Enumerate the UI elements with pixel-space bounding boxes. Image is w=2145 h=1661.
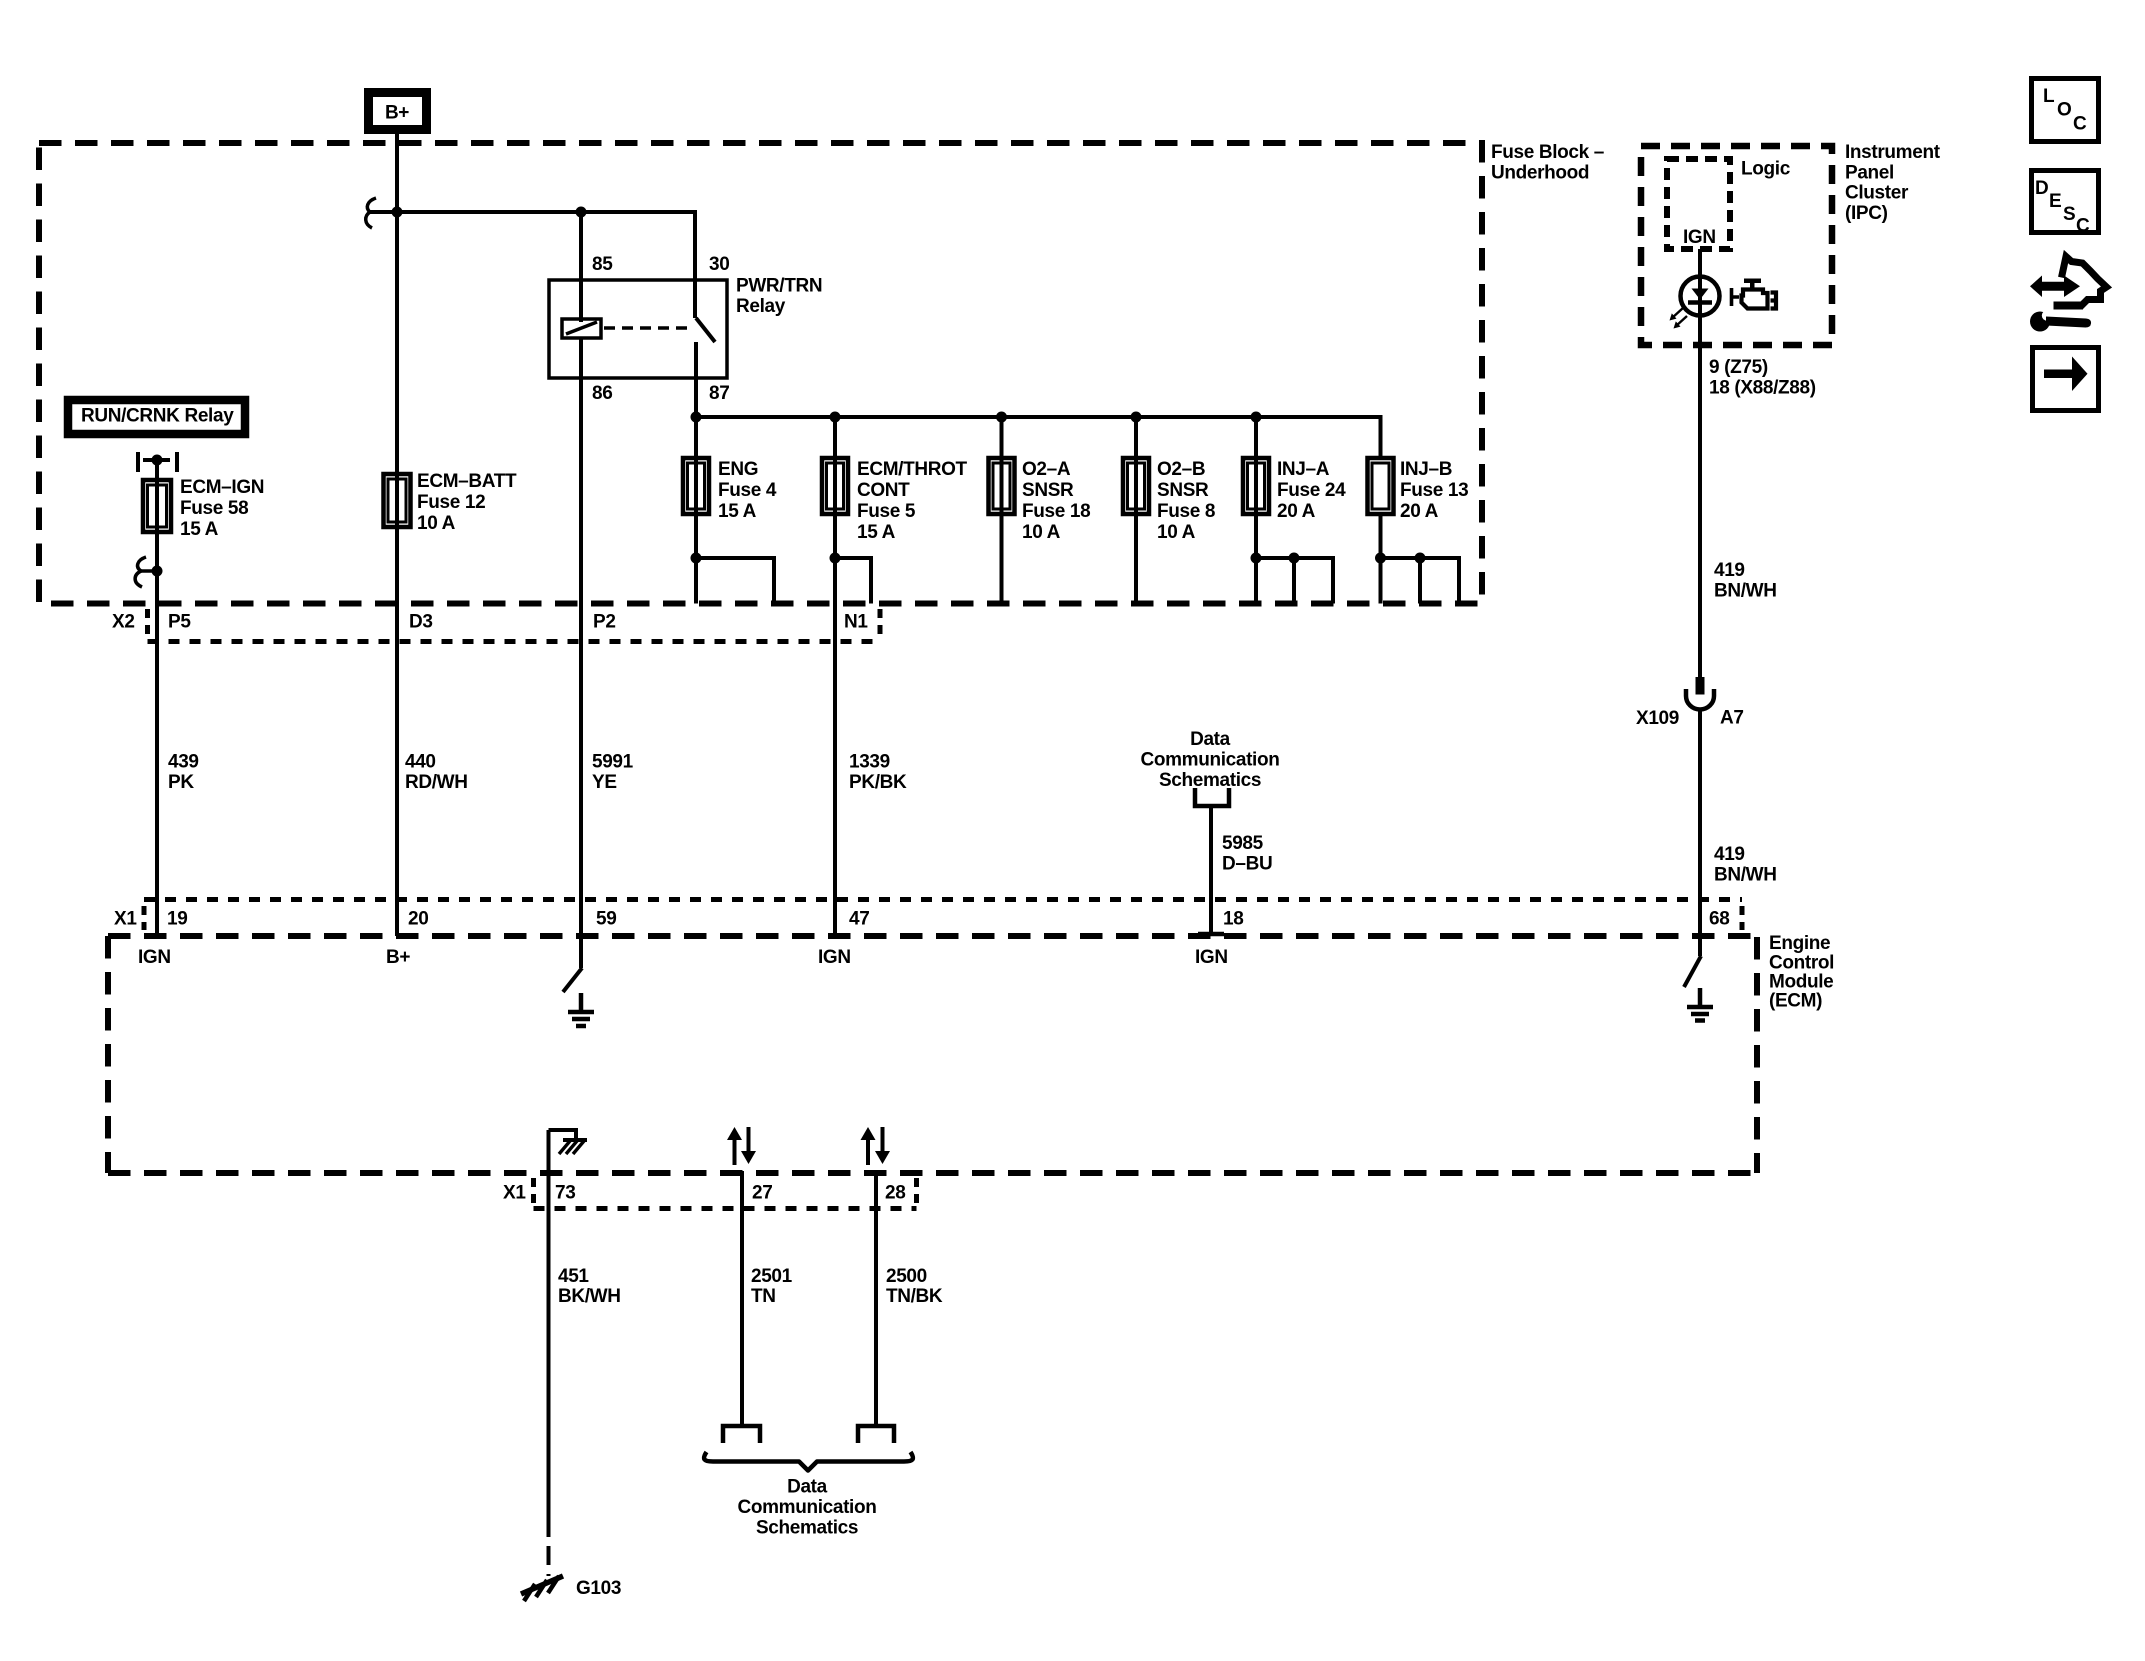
- wire INJ-B stub branches: [1381, 558, 1460, 604]
- label INJ-A Fuse 24 20 A: [1277, 459, 1346, 522]
- svg-text:Data: Data: [1190, 729, 1231, 750]
- jump arrow icon box: [2033, 348, 2099, 411]
- svg-text:BK/WH: BK/WH: [558, 1286, 621, 1307]
- wire relay pin 87 down to fuse bus: [694, 378, 698, 417]
- svg-text:RUN/CRNK Relay: RUN/CRNK Relay: [81, 406, 234, 427]
- wire ECM/THROT fuse stub branch: [835, 558, 871, 604]
- wire feed down to relay pin 30: [693, 210, 697, 318]
- svg-text:10 A: 10 A: [1157, 522, 1196, 543]
- fuse ECM-BATT Fuse 12: [384, 474, 411, 527]
- wire ENG fuse drop: [694, 417, 698, 604]
- fuse ECM-IGN Fuse 58 wire: [155, 465, 159, 571]
- label X2: [112, 612, 135, 633]
- svg-text:B+: B+: [386, 947, 410, 968]
- wire B+ vertical to ECM-BATT fuse and pin 20: [395, 130, 399, 936]
- junction dot bus at INJ-A fuse: [1251, 412, 1262, 423]
- RUN/CRNK Relay label box: [68, 400, 245, 434]
- relay switch blade: [696, 318, 715, 342]
- label wire 419 BN/WH (upper): [1714, 560, 1777, 601]
- svg-text:O2–B: O2–B: [1157, 459, 1205, 480]
- wire 2501 TN pin 27: [740, 1171, 744, 1427]
- pin label 27: [752, 1183, 772, 1204]
- pin label P2: [593, 612, 616, 633]
- chassis ground G103: [521, 1576, 563, 1601]
- svg-text:15 A: 15 A: [180, 519, 219, 540]
- svg-text:X2: X2: [112, 612, 135, 633]
- hotlink icon (double arrow, outline, wrench): [2030, 257, 2107, 332]
- brace for data communication schematics: [704, 1452, 913, 1471]
- svg-text:ECM–BATT: ECM–BATT: [417, 471, 517, 492]
- svg-text:439: 439: [168, 752, 199, 773]
- junction dot below INJ-A fuse: [1251, 553, 1262, 564]
- svg-text:BN/WH: BN/WH: [1714, 580, 1777, 601]
- label wire 5991 YE: [592, 752, 634, 794]
- svg-text:X1: X1: [114, 909, 137, 930]
- chassis ground inside ECM at pin 73: [549, 1130, 588, 1154]
- svg-text:N1: N1: [844, 612, 868, 633]
- svg-text:419: 419: [1714, 844, 1745, 865]
- off-page terminal at 2500: [858, 1426, 894, 1443]
- connector X1 bottom tick left: [531, 1178, 536, 1205]
- wire INJ-A stub branches: [1256, 558, 1333, 604]
- svg-text:C: C: [2076, 216, 2090, 237]
- label A7: [1720, 708, 1744, 729]
- inline connector X109 pin A7: [1686, 677, 1714, 710]
- relay pin label 87: [709, 383, 729, 404]
- svg-text:G103: G103: [576, 1578, 621, 1599]
- LED light arrows: [1670, 308, 1688, 329]
- svg-text:C: C: [2073, 114, 2087, 135]
- svg-text:O: O: [2057, 100, 2071, 121]
- pin label 47: [849, 909, 869, 930]
- svg-text:S: S: [2063, 204, 2075, 225]
- power feed B+ terminal box: [369, 93, 427, 130]
- pin label D3: [409, 612, 433, 633]
- svg-text:IGN: IGN: [1683, 227, 1716, 248]
- indicator LED circle: [1681, 277, 1720, 316]
- svg-text:ENG: ENG: [718, 459, 758, 480]
- wire INJ-B fuse drop: [1379, 514, 1383, 604]
- svg-text:86: 86: [592, 383, 612, 404]
- junction dot bus at O2-A fuse: [996, 412, 1007, 423]
- svg-text:BN/WH: BN/WH: [1714, 864, 1777, 885]
- svg-text:D: D: [2035, 178, 2048, 199]
- label ECM-IGN Fuse 58 15 A: [180, 477, 264, 540]
- svg-text:Fuse 5: Fuse 5: [857, 501, 916, 522]
- wire top horizontal feed: [370, 210, 695, 214]
- relay pin label 30: [709, 254, 729, 275]
- label ENG Fuse 4 15 A: [718, 459, 777, 522]
- svg-text:Fuse 24: Fuse 24: [1277, 480, 1346, 501]
- label wire 1339 PK/BK: [849, 752, 907, 794]
- connector X1 bottom band dotted line: [534, 1206, 917, 1211]
- label ECM-BATT Fuse 12 10 A: [417, 471, 517, 534]
- label Fuse Block - Underhood: [1491, 142, 1604, 184]
- label PWR/TRN Relay: [736, 276, 822, 318]
- svg-text:Fuse Block –: Fuse Block –: [1491, 142, 1604, 163]
- svg-text:20 A: 20 A: [1400, 501, 1439, 522]
- relay actuation dashed link: [604, 326, 688, 330]
- fuse INJ-B Fuse 13: [1368, 458, 1394, 514]
- svg-text:ECM/THROT: ECM/THROT: [857, 459, 968, 480]
- svg-text:Instrument: Instrument: [1845, 142, 1941, 163]
- pin label 20: [408, 909, 428, 930]
- svg-text:9 (Z75): 9 (Z75): [1709, 357, 1768, 378]
- svg-text:SNSR: SNSR: [1022, 480, 1074, 501]
- pin label 28: [885, 1183, 905, 1204]
- junction dot INJ-B stub: [1415, 553, 1426, 564]
- svg-text:YE: YE: [592, 772, 617, 793]
- label ECM/THROT CONT Fuse 5 15 A: [857, 459, 968, 543]
- svg-text:Fuse 8: Fuse 8: [1157, 501, 1215, 522]
- svg-text:P5: P5: [168, 612, 191, 633]
- svg-text:PK/BK: PK/BK: [849, 772, 907, 793]
- label wire 440 RD/WH: [405, 752, 468, 794]
- svg-text:PK: PK: [168, 772, 194, 793]
- fuse ENG Fuse 4: [683, 458, 709, 514]
- Engine Control Module dashed box: [108, 936, 1757, 1173]
- svg-text:TN: TN: [751, 1286, 776, 1307]
- label IGN at pin 47: [818, 947, 851, 968]
- engine icon (check engine): [1732, 279, 1777, 309]
- wire ENG fuse stub branch: [696, 558, 774, 604]
- junction dot below ECM/THROT fuse: [830, 553, 841, 564]
- wire fuse supply bus: [696, 415, 1381, 419]
- fuse ECM/THROT CONT Fuse 5: [822, 458, 848, 514]
- relay pin label 85: [592, 254, 613, 275]
- svg-text:Fuse 13: Fuse 13: [1400, 480, 1468, 501]
- svg-text:D3: D3: [409, 612, 433, 633]
- svg-text:Fuse 4: Fuse 4: [718, 480, 777, 501]
- svg-text:A7: A7: [1720, 708, 1744, 729]
- svg-text:TN/BK: TN/BK: [886, 1286, 943, 1307]
- connector X2 tick left: [145, 609, 150, 639]
- svg-text:Cluster: Cluster: [1845, 183, 1909, 204]
- svg-text:Module: Module: [1769, 971, 1833, 992]
- label IGN at pin 18: [1195, 947, 1228, 968]
- svg-text:Communication: Communication: [1140, 750, 1279, 771]
- serial data arrows at pin 28: [861, 1127, 891, 1165]
- connector X1 tick right at pin 68: [1740, 906, 1745, 930]
- svg-text:18 (X88/Z88): 18 (X88/Z88): [1709, 378, 1816, 399]
- svg-text:85: 85: [592, 254, 613, 275]
- svg-text:IGN: IGN: [1195, 947, 1228, 968]
- label wire 439 PK: [168, 752, 199, 794]
- pin label 19: [167, 909, 187, 930]
- svg-text:87: 87: [709, 383, 729, 404]
- svg-text:Fuse 18: Fuse 18: [1022, 501, 1090, 522]
- wire bus drop to INJ-B fuse: [1379, 415, 1383, 458]
- label wire 419 BN/WH (lower): [1714, 844, 1777, 885]
- RUN/CRNK relay output terminal symbol: [138, 452, 177, 472]
- svg-text:20 A: 20 A: [1277, 501, 1316, 522]
- pin label 73: [555, 1183, 575, 1204]
- fuse O2-A SNSR Fuse 18: [989, 458, 1015, 514]
- svg-text:68: 68: [1709, 909, 1729, 930]
- wire relay pin 86 down (5991 column): [579, 338, 583, 962]
- svg-text:INJ–A: INJ–A: [1277, 459, 1330, 480]
- junction dot at B+ feed: [392, 207, 403, 218]
- ground symbol at pin 68: [1687, 988, 1713, 1021]
- label Data Communication Schematics (lower): [737, 1477, 876, 1539]
- wire 5985 D-BU to pin 18: [1198, 806, 1224, 934]
- svg-text:Logic: Logic: [1741, 159, 1791, 180]
- svg-text:RD/WH: RD/WH: [405, 772, 468, 793]
- wire 451 BK/WH pin 73 to G103: [547, 1130, 551, 1576]
- svg-text:SNSR: SNSR: [1157, 480, 1209, 501]
- wire 419 BN/WH from IPC to X109: [1698, 315, 1702, 677]
- label X109: [1636, 708, 1679, 729]
- svg-text:30: 30: [709, 254, 729, 275]
- svg-text:(ECM): (ECM): [1769, 990, 1822, 1011]
- junction dot INJ-A stub: [1289, 553, 1300, 564]
- relay pin label 86: [592, 383, 612, 404]
- svg-text:B+: B+: [385, 103, 409, 124]
- junction dot below INJ-B fuse: [1375, 553, 1386, 564]
- svg-text:X1: X1: [503, 1183, 526, 1204]
- svg-text:Relay: Relay: [736, 296, 786, 317]
- svg-text:28: 28: [885, 1183, 905, 1204]
- connector X2 band dotted line: [148, 639, 881, 644]
- svg-text:10 A: 10 A: [1022, 522, 1061, 543]
- svg-text:Control: Control: [1769, 952, 1834, 973]
- serial data arrows at pin 27: [727, 1127, 756, 1165]
- label circuit 9 (Z75) 18 (X88/Z88): [1709, 357, 1816, 399]
- junction dot bus at ECM/THROT fuse: [830, 412, 841, 423]
- svg-text:10 A: 10 A: [417, 513, 456, 534]
- svg-text:1339: 1339: [849, 752, 890, 773]
- svg-text:440: 440: [405, 752, 436, 773]
- svg-text:INJ–B: INJ–B: [1400, 459, 1452, 480]
- pin label 59: [596, 909, 616, 930]
- svg-text:CONT: CONT: [857, 480, 910, 501]
- connector X1 bottom tick right: [914, 1178, 919, 1205]
- off-page terminal at 2501: [723, 1426, 760, 1443]
- label IGN at pin 19: [138, 947, 171, 968]
- connector X1 tick left: [142, 906, 147, 930]
- connector X2 tick right: [878, 609, 883, 639]
- wire feed down to relay pin 85: [579, 212, 583, 322]
- svg-text:ECM–IGN: ECM–IGN: [180, 477, 264, 498]
- Instrument Panel Cluster dashed box: [1641, 146, 1832, 345]
- label X1 (bottom band): [503, 1183, 526, 1204]
- pin label N1: [844, 612, 868, 633]
- wire continuation hook at ECM-IGN wire: [135, 557, 162, 587]
- svg-text:Fuse 58: Fuse 58: [180, 498, 248, 519]
- svg-text:Schematics: Schematics: [756, 1518, 858, 1539]
- switch to ground at pin 68 inside ECM: [1684, 936, 1701, 987]
- label wire 2501 TN: [751, 1266, 793, 1307]
- pin label 68: [1709, 909, 1729, 930]
- label Logic: [1741, 159, 1791, 180]
- svg-text:20: 20: [408, 909, 428, 930]
- svg-text:15 A: 15 A: [718, 501, 757, 522]
- svg-text:Data: Data: [787, 1477, 828, 1498]
- connector X1 band dotted line: [144, 897, 1742, 902]
- label B+ at pin 20: [386, 947, 410, 968]
- label Data Communication Schematics (upper): [1140, 729, 1279, 791]
- svg-text:2501: 2501: [751, 1266, 793, 1287]
- svg-text:Fuse 12: Fuse 12: [417, 492, 485, 513]
- fuse INJ-A Fuse 24: [1243, 458, 1269, 514]
- DESC icon box: [2032, 171, 2099, 237]
- svg-text:(IPC): (IPC): [1845, 203, 1888, 224]
- pin label P5: [168, 612, 191, 633]
- wire ECM/THROT fuse drop (1339 column): [833, 417, 837, 936]
- label Instrument Panel Cluster (IPC): [1845, 142, 1941, 224]
- svg-text:L: L: [2043, 86, 2055, 107]
- svg-text:Engine: Engine: [1769, 933, 1830, 954]
- svg-text:Schematics: Schematics: [1159, 770, 1261, 791]
- svg-text:Communication: Communication: [737, 1497, 876, 1518]
- svg-text:451: 451: [558, 1266, 589, 1287]
- label G103: [576, 1578, 621, 1599]
- junction dot below ENG fuse: [691, 553, 702, 564]
- label wire 2500 TN/BK: [886, 1266, 943, 1307]
- relay coil: [562, 319, 601, 338]
- label wire 5985 D-BU: [1222, 833, 1272, 874]
- fuse block - underhood dashed box: [39, 143, 1482, 604]
- wire continuation hook left of feed line: [366, 198, 376, 228]
- relay K1 PWR/TRN box: [549, 280, 727, 378]
- svg-text:O2–A: O2–A: [1022, 459, 1071, 480]
- wire INJ-A fuse drop: [1254, 417, 1258, 604]
- svg-text:P2: P2: [593, 612, 616, 633]
- svg-text:73: 73: [555, 1183, 575, 1204]
- svg-text:2500: 2500: [886, 1266, 927, 1287]
- fuse O2-B SNSR Fuse 8: [1123, 458, 1149, 514]
- svg-text:D–BU: D–BU: [1222, 854, 1272, 875]
- svg-text:Panel: Panel: [1845, 162, 1894, 183]
- label O2-B SNSR Fuse 8 10 A: [1157, 459, 1215, 543]
- label X1 (top band): [114, 909, 137, 930]
- switch to ground at pin 59 inside ECM: [563, 936, 582, 992]
- ground symbol at pin 59: [568, 993, 594, 1026]
- svg-text:15 A: 15 A: [857, 522, 896, 543]
- svg-text:X109: X109: [1636, 708, 1679, 729]
- junction dot bus at ENG fuse: [691, 412, 702, 423]
- LOC icon box: [2032, 79, 2099, 142]
- svg-text:47: 47: [849, 909, 869, 930]
- svg-text:19: 19: [167, 909, 187, 930]
- svg-text:IGN: IGN: [818, 947, 851, 968]
- svg-text:E: E: [2049, 191, 2061, 212]
- LED diode triangle: [1688, 289, 1712, 303]
- wire IGN to indicator: [1698, 249, 1702, 315]
- wire O2-B fuse drop: [1134, 417, 1138, 604]
- svg-text:PWR/TRN: PWR/TRN: [736, 276, 822, 297]
- junction dot bus at O2-B fuse: [1131, 412, 1142, 423]
- relay lower contact: [694, 342, 698, 378]
- Logic dashed box: [1667, 159, 1730, 249]
- svg-text:5985: 5985: [1222, 833, 1264, 854]
- label INJ-B Fuse 13 20 A: [1400, 459, 1468, 522]
- svg-text:5991: 5991: [592, 752, 634, 773]
- label IGN inside logic box: [1683, 227, 1716, 248]
- svg-text:IGN: IGN: [138, 947, 171, 968]
- junction dot at relay coil feed: [576, 207, 587, 218]
- wire 2500 TN/BK pin 28: [874, 1171, 878, 1427]
- label Engine Control Module (ECM): [1769, 933, 1834, 1011]
- off-page connector bracket (serial data): [1195, 788, 1229, 806]
- wire O2-A fuse drop: [1000, 417, 1004, 604]
- label O2-A SNSR Fuse 18 10 A: [1022, 459, 1090, 543]
- svg-text:18: 18: [1223, 909, 1243, 930]
- wire 439 PK pin P5 to pin 19: [155, 571, 159, 936]
- svg-text:27: 27: [752, 1183, 772, 1204]
- pin label 18: [1223, 909, 1243, 930]
- svg-text:419: 419: [1714, 560, 1745, 581]
- svg-text:Underhood: Underhood: [1491, 163, 1589, 184]
- label wire 451 BK/WH: [558, 1266, 621, 1307]
- wire 419 BN/WH X109 to pin 68: [1698, 709, 1702, 936]
- svg-text:59: 59: [596, 909, 616, 930]
- fuse ECM-IGN Fuse 58: [143, 480, 171, 532]
